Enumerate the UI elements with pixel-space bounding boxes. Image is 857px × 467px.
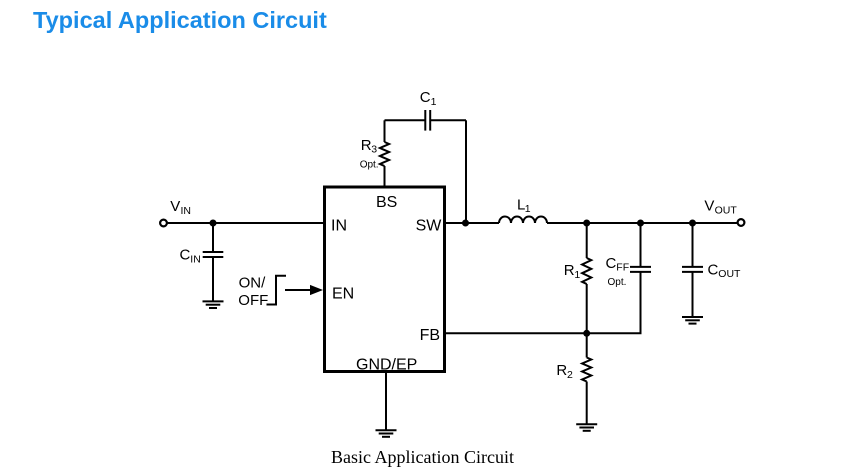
capacitor COUT — [682, 266, 703, 268]
IC U1 block — [325, 187, 445, 372]
svg-text:1: 1 — [431, 96, 437, 108]
svg-text:IN: IN — [190, 254, 201, 266]
svg-text:1: 1 — [574, 269, 580, 281]
wire CIN top stem — [212, 223, 214, 252]
wire COUT bottom stem — [692, 272, 694, 317]
svg-text:OFF: OFF — [238, 292, 268, 309]
wire CFF bottom stem — [640, 272, 642, 333]
wire output rail L1 to VOUT — [547, 222, 738, 224]
node FB junction — [583, 330, 590, 337]
capacitor CFF — [630, 266, 651, 268]
node CFF top junction — [637, 220, 644, 227]
wire SW rail to L1 — [446, 222, 499, 224]
wire CIN bottom stem — [212, 257, 214, 301]
svg-text:EN: EN — [332, 286, 354, 303]
svg-text:OUT: OUT — [718, 268, 741, 280]
svg-text:FB: FB — [420, 327, 440, 344]
svg-text:Opt.: Opt. — [608, 277, 627, 288]
node COUT top junction — [689, 220, 696, 227]
svg-text:3: 3 — [371, 144, 377, 156]
ground CIN — [203, 301, 224, 308]
resistor R2 — [582, 358, 591, 382]
svg-text:BS: BS — [376, 194, 397, 211]
wire input rail VIN to IN — [168, 222, 324, 224]
svg-text:Basic Application Circuit: Basic Application Circuit — [331, 447, 514, 467]
wire BS pin stem — [384, 166, 386, 186]
ground COUT — [682, 317, 703, 324]
wire R2 top stem — [586, 333, 588, 357]
svg-text:C: C — [606, 255, 617, 272]
svg-text:2: 2 — [567, 369, 573, 381]
svg-text:IN: IN — [181, 205, 192, 217]
node R1 top junction — [583, 220, 590, 227]
terminal VOUT — [738, 219, 745, 226]
wire C1 top left — [385, 119, 426, 121]
svg-text:IN: IN — [331, 217, 347, 234]
wire R1 bottom stem — [586, 284, 588, 333]
ground R2 — [576, 424, 597, 431]
wire FB rail — [446, 272, 641, 333]
signal ON/OFF step symbol — [267, 276, 287, 305]
wire C1 loop left vertical — [384, 120, 386, 142]
svg-text:C: C — [420, 89, 431, 106]
resistor R1 — [582, 258, 591, 284]
wire COUT top stem — [692, 223, 694, 267]
svg-text:FF: FF — [616, 262, 629, 274]
svg-text:R: R — [361, 137, 372, 154]
svg-text:C: C — [180, 247, 191, 264]
wire R2 bottom stem — [586, 382, 588, 425]
capacitor CIN — [203, 251, 224, 253]
resistor R3 — [380, 142, 389, 166]
wire CFF top stem — [640, 223, 642, 267]
svg-text:GND/EP: GND/EP — [356, 357, 417, 374]
svg-text:SW: SW — [416, 217, 443, 234]
svg-text:V: V — [704, 198, 714, 215]
wire C1 top right — [430, 119, 466, 121]
svg-text:C: C — [708, 261, 719, 278]
wire GND/EP stem — [385, 373, 387, 430]
ground GND/EP — [376, 430, 397, 437]
svg-text:R: R — [556, 362, 567, 379]
terminal VIN — [160, 220, 167, 227]
svg-text:ON/: ON/ — [239, 274, 267, 291]
wire EN arrow line — [285, 289, 312, 291]
inductor L1 — [499, 217, 547, 224]
title — [33, 7, 327, 34]
node CIN junction — [210, 220, 217, 227]
wire C1 right vertical to SW node — [465, 120, 467, 223]
svg-text:OUT: OUT — [715, 204, 738, 216]
node SW junction — [462, 220, 469, 227]
wire R1 top stem — [586, 223, 588, 258]
svg-text:V: V — [170, 198, 180, 215]
svg-text:1: 1 — [525, 203, 531, 215]
arrowhead EN — [310, 285, 323, 295]
capacitor C1 — [424, 110, 426, 131]
svg-text:R: R — [564, 262, 575, 279]
svg-text:Opt.: Opt. — [360, 160, 379, 171]
